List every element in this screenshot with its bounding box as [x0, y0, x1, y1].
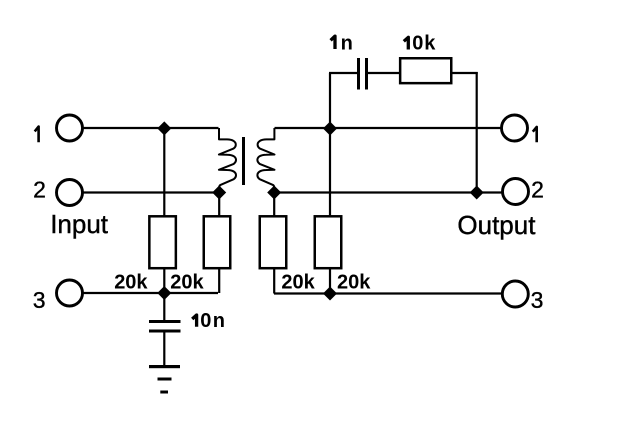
terminal input 2 [57, 180, 83, 206]
wire: feedback rail mid segment [368, 72, 401, 74]
svg-text:0n: 0n [200, 310, 226, 332]
node C junction [157, 286, 171, 300]
wire: secondary bottom rail to output 2 [275, 191, 504, 193]
resistor R5 10k (feedback) [400, 58, 451, 83]
wire: bottom right rail to output 3 [274, 292, 502, 294]
svg-text:20k: 20k [281, 272, 315, 294]
value label 10n [192, 315, 196, 327]
value label 10k [404, 37, 409, 49]
node G junction [323, 287, 337, 301]
wire: feedback right vertical down to node F [476, 72, 478, 193]
svg-text:20k: 20k [337, 272, 371, 294]
wire: node B down to R2 top [218, 193, 220, 218]
capacitor C2 10n plates [149, 320, 181, 333]
node D junction [323, 122, 337, 136]
wire: node C down to capacitor C2 [163, 293, 165, 321]
node F junction [470, 186, 484, 200]
wire: feedback rail left segment [329, 72, 358, 74]
wire: node D up to feedback rail and down through R4 [329, 73, 331, 217]
terminal output 1 [502, 115, 528, 141]
svg-text:2: 2 [33, 176, 46, 202]
wire: input 3 rail [83, 292, 218, 294]
wire: R3 bottom to bottom right rail [273, 267, 275, 294]
node E junction [267, 186, 281, 200]
resistor R4 20k (right) [315, 216, 342, 268]
terminal input 3 [57, 280, 83, 306]
svg-text:0k: 0k [412, 33, 436, 55]
svg-text:Output: Output [457, 210, 536, 240]
capacitor C1 1n plates [357, 58, 368, 90]
resistor R1 20k (left) [149, 216, 176, 268]
pin label 1 (input) [35, 127, 39, 143]
wire: node E down to R3 top [273, 193, 275, 218]
ground [149, 365, 180, 394]
transformer T1 primary coil [219, 128, 236, 193]
transformer T1 secondary coil [257, 128, 274, 193]
wire: input 2 rail [83, 191, 219, 193]
wire: feedback rail right segment [452, 72, 478, 74]
wire: secondary top rail to output 1 [275, 127, 503, 129]
svg-text:20k: 20k [114, 272, 148, 294]
node A junction [157, 121, 171, 135]
wire: input 1 rail [83, 127, 219, 129]
wire: capacitor C2 to ground [163, 332, 165, 366]
svg-text:3: 3 [531, 287, 544, 313]
terminal input 1 [57, 115, 83, 141]
terminal output 2 [503, 179, 529, 205]
svg-text:3: 3 [33, 287, 46, 313]
resistor R3 20k (right) [260, 216, 287, 268]
node B junction [212, 186, 226, 200]
pin label 1 (output) [533, 127, 537, 142]
resistor R2 20k (left) [204, 216, 231, 268]
terminal output 3 [502, 281, 528, 307]
svg-text:Input: Input [50, 209, 109, 239]
value label 1n [331, 36, 335, 49]
wire: node A down through R1 to node C [163, 128, 165, 217]
transformer T1 core [242, 137, 245, 185]
svg-text:n: n [341, 33, 353, 55]
wire: R2 bottom down to bottom rail [218, 267, 220, 293]
svg-text:20k: 20k [170, 272, 204, 294]
svg-text:2: 2 [531, 176, 544, 202]
